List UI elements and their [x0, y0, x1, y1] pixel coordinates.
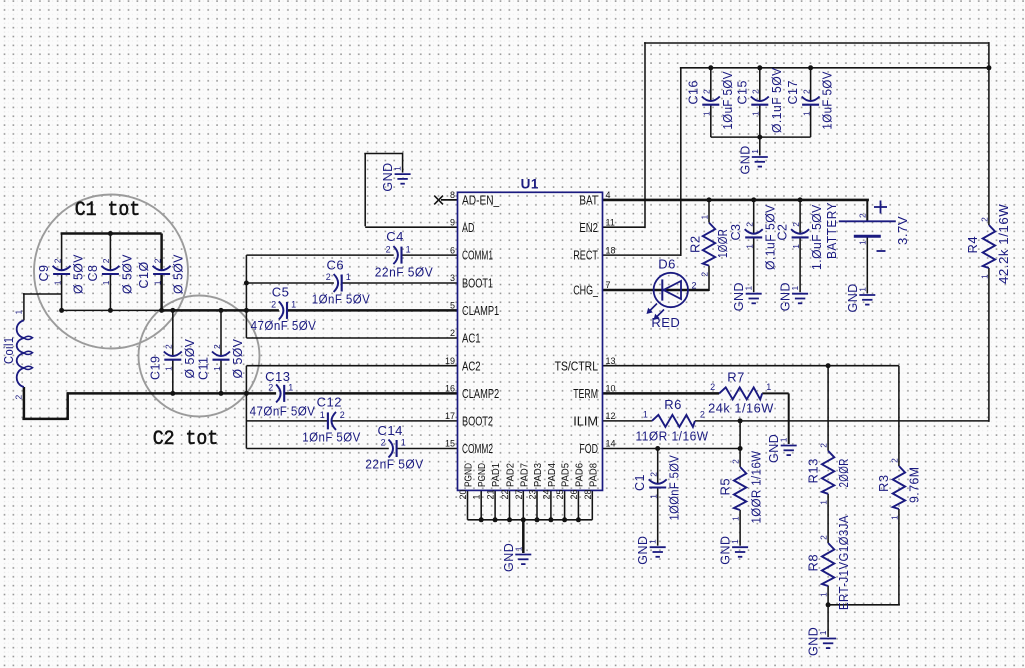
- LED D6: [654, 273, 688, 307]
- svg-text:Ø 5ØV: Ø 5ØV: [231, 338, 245, 378]
- wire R6 node down to FOD row: [739, 421, 741, 449]
- svg-text:Ø 5ØV: Ø 5ØV: [172, 254, 186, 294]
- svg-text:1: 1: [801, 111, 811, 116]
- svg-text:11ØR 1/16W: 11ØR 1/16W: [636, 429, 709, 443]
- wire C16 C15 C17 stubs and bottom rail: [710, 68, 712, 101]
- svg-text:47ØnF 5ØV: 47ØnF 5ØV: [251, 318, 317, 333]
- svg-text:R5: R5: [717, 478, 732, 496]
- capacitor C8: [101, 266, 119, 271]
- wire TERM row thick to R7: [603, 392, 720, 395]
- resistor R13: [822, 451, 834, 494]
- svg-text:COMM1: COMM1: [462, 248, 493, 263]
- svg-text:42.2k 1/16W: 42.2k 1/16W: [997, 204, 1011, 284]
- wire BOOT2 row: [246, 420, 328, 422]
- wire CLAMP1 rail left thin segment: [62, 309, 162, 311]
- svg-text:C17: C17: [786, 80, 800, 104]
- svg-text:AC2: AC2: [462, 358, 481, 373]
- wire FOD row: [603, 448, 741, 450]
- svg-text:25: 25: [555, 489, 565, 499]
- svg-text:RED: RED: [651, 315, 680, 330]
- LED D6 arrows: [649, 304, 657, 312]
- svg-text:1: 1: [819, 592, 829, 597]
- svg-text:PAD1: PAD1: [490, 463, 502, 487]
- svg-text:1ØØR 1/16W: 1ØØR 1/16W: [749, 451, 763, 524]
- svg-text:BAT: BAT: [579, 193, 598, 208]
- capacitor C9: [53, 266, 71, 271]
- svg-text:2: 2: [700, 409, 705, 419]
- capacitor C17: [802, 97, 820, 102]
- capacitor C11: [212, 352, 230, 357]
- resistor R3: [893, 466, 905, 509]
- svg-text:Coil1: Coil1: [2, 337, 16, 365]
- svg-text:1ØØnF 5ØV: 1ØØnF 5ØV: [668, 455, 682, 521]
- svg-text:1: 1: [101, 280, 111, 285]
- svg-text:1: 1: [52, 280, 62, 285]
- capacitor C19: [164, 352, 182, 357]
- svg-text:2: 2: [889, 458, 899, 463]
- svg-text:R3: R3: [876, 474, 891, 492]
- svg-text:D6: D6: [658, 257, 676, 272]
- svg-text:1: 1: [700, 215, 710, 220]
- svg-text:Ø 5ØV: Ø 5ØV: [183, 338, 197, 378]
- svg-text:47ØnF 5ØV: 47ØnF 5ØV: [250, 403, 316, 418]
- svg-text:2: 2: [731, 459, 741, 464]
- capacitor C6: [334, 274, 339, 292]
- svg-text:18: 18: [606, 245, 616, 255]
- wire C19 stubs: [172, 310, 174, 356]
- wire R6 to R4 node: [695, 420, 989, 422]
- svg-text:13: 13: [606, 356, 616, 366]
- svg-text:22nF 5ØV: 22nF 5ØV: [375, 265, 433, 280]
- op-amp U1 IC body: [458, 192, 603, 490]
- svg-text:1ØØR: 1ØØR: [716, 229, 730, 258]
- svg-text:2: 2: [857, 213, 867, 218]
- svg-text:BOOT1: BOOT1: [462, 276, 493, 291]
- annotation circle C1 tot: [34, 195, 188, 349]
- resistor R7: [719, 387, 762, 399]
- svg-text:1: 1: [979, 274, 989, 279]
- svg-text:20: 20: [458, 489, 468, 499]
- svg-text:2: 2: [819, 535, 829, 540]
- svg-text:R8: R8: [805, 554, 820, 572]
- svg-text:1: 1: [643, 409, 648, 419]
- wire coil pin2 step path: [23, 387, 26, 420]
- svg-text:2: 2: [386, 244, 391, 254]
- svg-text:2: 2: [791, 222, 801, 227]
- svg-text:C2: C2: [776, 224, 790, 241]
- svg-text:FOD: FOD: [579, 441, 598, 456]
- ground for U1 PAD bus: [515, 554, 531, 556]
- resistor R4: [983, 225, 995, 268]
- svg-text:2: 2: [710, 382, 715, 392]
- svg-text:2: 2: [801, 89, 811, 94]
- svg-text:PAD4: PAD4: [546, 463, 558, 487]
- wire AC2 row: [246, 365, 457, 367]
- svg-text:1: 1: [744, 286, 754, 291]
- svg-text:C4: C4: [386, 229, 404, 244]
- svg-text:PGND: PGND: [463, 463, 475, 487]
- svg-text:2: 2: [819, 443, 829, 448]
- svg-text:16: 16: [445, 384, 455, 394]
- svg-text:2: 2: [692, 281, 697, 291]
- svg-text:ILIM: ILIM: [573, 414, 598, 429]
- resistor R2: [703, 223, 715, 266]
- wire R2 to BAT rail: [708, 200, 710, 223]
- svg-text:17: 17: [445, 411, 455, 421]
- wire C10 vertical thick: [160, 234, 163, 271]
- svg-text:EN2: EN2: [579, 220, 598, 235]
- svg-text:PAD5: PAD5: [560, 463, 572, 487]
- svg-text:C9: C9: [37, 265, 51, 282]
- svg-text:15: 15: [445, 439, 455, 449]
- svg-text:1ØnF 5ØV: 1ØnF 5ØV: [302, 430, 360, 445]
- svg-text:8: 8: [450, 190, 455, 200]
- svg-text:1: 1: [751, 111, 761, 116]
- capacitor C14: [389, 440, 394, 458]
- svg-text:1: 1: [766, 382, 771, 392]
- svg-text:1: 1: [346, 272, 351, 282]
- capacitor C4: [393, 246, 398, 264]
- svg-text:PAD8: PAD8: [587, 463, 599, 487]
- svg-text:12: 12: [606, 411, 616, 421]
- svg-text:9: 9: [450, 217, 455, 227]
- svg-text:1: 1: [702, 111, 712, 116]
- ground for AD pin: [395, 173, 411, 175]
- svg-text:1: 1: [649, 494, 659, 499]
- svg-text:R4: R4: [965, 236, 980, 254]
- wire EN2 up to top rail: [603, 226, 646, 228]
- svg-text:C8: C8: [86, 265, 100, 282]
- svg-text:1: 1: [857, 287, 867, 292]
- svg-text:Ø.1uF 5ØV: Ø.1uF 5ØV: [770, 67, 784, 133]
- wire COMM2 row: [246, 448, 388, 450]
- svg-text:11: 11: [606, 217, 615, 227]
- wire top rail EN2/RECT net: [644, 42, 989, 44]
- svg-text:2: 2: [450, 328, 455, 338]
- ground for C1: [650, 546, 666, 548]
- wire IC bottom pin stubs and bus: [467, 490, 469, 519]
- svg-text:PAD2: PAD2: [505, 463, 517, 487]
- wire TS/CTRL down to R3: [898, 366, 900, 466]
- svg-text:1: 1: [730, 539, 740, 544]
- svg-text:AD: AD: [462, 220, 474, 235]
- svg-text:1: 1: [164, 366, 174, 371]
- svg-text:R2: R2: [687, 235, 702, 253]
- svg-text:Ø 5ØV: Ø 5ØV: [72, 254, 86, 294]
- svg-text:C15: C15: [735, 80, 749, 104]
- svg-text:1: 1: [406, 244, 411, 254]
- svg-text:2: 2: [14, 395, 24, 400]
- wire R5 stubs: [739, 449, 741, 468]
- svg-text:2: 2: [340, 410, 345, 420]
- svg-text:7: 7: [606, 280, 611, 290]
- svg-text:2: 2: [164, 344, 174, 349]
- wire BAT thick rail: [603, 199, 869, 202]
- svg-text:C12: C12: [317, 395, 342, 410]
- svg-text:CLAMP2: CLAMP2: [462, 386, 499, 401]
- wire CLAMP2 thick rail: [67, 392, 276, 395]
- svg-text:26: 26: [569, 489, 579, 499]
- capacitor C12 (flipped): [332, 412, 337, 430]
- svg-text:AC1: AC1: [462, 331, 481, 346]
- svg-text:3: 3: [450, 273, 455, 283]
- svg-text:2: 2: [152, 258, 162, 263]
- svg-text:C5: C5: [272, 285, 290, 300]
- wire R4 vertical: [988, 68, 990, 225]
- svg-text:1: 1: [152, 280, 162, 285]
- svg-text:PAD3: PAD3: [532, 463, 544, 487]
- svg-text:1: 1: [819, 500, 829, 505]
- svg-text:22: 22: [500, 489, 510, 499]
- svg-text:1ØnF 5ØV: 1ØnF 5ØV: [312, 292, 370, 307]
- capacitor C15: [751, 97, 769, 102]
- svg-text:1: 1: [401, 438, 406, 448]
- svg-text:TERM: TERM: [573, 386, 598, 401]
- svg-text:2: 2: [745, 222, 755, 227]
- wire COMM1 BOOT1 AC1 vertical: [245, 255, 247, 338]
- svg-text:ERT-J1VG1Ø3JA: ERT-J1VG1Ø3JA: [837, 515, 851, 610]
- svg-text:R7: R7: [727, 370, 745, 385]
- wire R13 chain: [827, 366, 829, 451]
- svg-text:14: 14: [606, 439, 616, 449]
- svg-text:1: 1: [648, 539, 658, 544]
- svg-text:1: 1: [393, 166, 403, 171]
- svg-text:5: 5: [450, 301, 455, 311]
- wire RECT up to cap bank rail: [603, 254, 681, 256]
- no-connect X on AD-EN_ pin 8: [441, 199, 458, 201]
- svg-text:1ØuF 5ØV: 1ØuF 5ØV: [821, 71, 835, 130]
- svg-text:6: 6: [450, 245, 455, 255]
- wire C11 stubs: [220, 310, 222, 356]
- svg-text:COMM2: COMM2: [462, 441, 493, 456]
- svg-text:C1Ø: C1Ø: [137, 261, 151, 288]
- svg-text:1: 1: [889, 515, 899, 520]
- capacitor C16: [702, 97, 720, 102]
- capacitor C1: [649, 479, 667, 484]
- resistor R5: [734, 467, 746, 510]
- svg-text:2: 2: [101, 258, 111, 263]
- svg-text:3.7V: 3.7V: [896, 216, 910, 245]
- svg-text:U1: U1: [521, 177, 539, 192]
- svg-text:2: 2: [751, 89, 761, 94]
- wire PAD bus to GND thick: [522, 520, 525, 553]
- svg-text:C14: C14: [378, 423, 403, 438]
- svg-text:1: 1: [513, 546, 523, 551]
- capacitor C2: [791, 229, 809, 234]
- wire C9 bottom stub: [61, 274, 63, 310]
- svg-text:1: 1: [288, 383, 293, 393]
- svg-text:23: 23: [528, 489, 538, 499]
- wire cap bank top rail: [680, 67, 989, 69]
- svg-text:BATTERY: BATTERY: [825, 202, 839, 259]
- svg-text:Ø 5ØV: Ø 5ØV: [120, 254, 134, 294]
- svg-text:2: 2: [649, 472, 659, 477]
- svg-text:1: 1: [790, 286, 800, 291]
- wire coil pin1 to C1 bank: [23, 293, 25, 320]
- thermistor R8: [822, 543, 834, 586]
- svg-text:PAD7: PAD7: [518, 463, 530, 487]
- svg-text:2: 2: [326, 272, 331, 282]
- svg-text:2: 2: [700, 272, 710, 277]
- svg-text:28: 28: [583, 489, 593, 499]
- svg-text:1: 1: [745, 244, 755, 249]
- svg-text:1: 1: [320, 410, 325, 420]
- svg-text:C2 tot: C2 tot: [153, 428, 219, 451]
- ground for R5: [732, 546, 748, 548]
- wire C2 stubs: [799, 200, 801, 234]
- svg-text:2: 2: [52, 258, 62, 263]
- svg-text:1: 1: [472, 494, 482, 499]
- svg-text:2: 2: [212, 344, 222, 349]
- wire CHG_ to LED D6: [603, 289, 710, 292]
- svg-text:RECT: RECT: [573, 248, 598, 263]
- battery BATTERY 3.7V: [839, 220, 896, 222]
- svg-text:1: 1: [857, 240, 867, 245]
- svg-text:24k 1/16W: 24k 1/16W: [708, 401, 774, 415]
- svg-text:C19: C19: [148, 356, 162, 380]
- svg-text:1: 1: [779, 437, 789, 442]
- ground for RECT cap bank: [752, 156, 768, 158]
- svg-text:1: 1: [14, 310, 24, 315]
- svg-text:C3: C3: [729, 224, 743, 241]
- wire R3 bottom to chain junction: [898, 509, 900, 605]
- annotation circle C2 tot: [139, 296, 260, 417]
- svg-text:R6: R6: [664, 397, 682, 412]
- ground for battery: [859, 294, 875, 296]
- svg-text:1: 1: [750, 149, 760, 154]
- svg-text:2: 2: [381, 438, 386, 448]
- svg-text:2: 2: [271, 300, 276, 310]
- svg-text:1ØuF 5ØV: 1ØuF 5ØV: [721, 71, 735, 130]
- wire ILIM row to R6: [603, 420, 652, 422]
- wire chain junction to GND: [827, 605, 829, 637]
- wire AD net to GND: [365, 226, 457, 228]
- svg-text:1: 1: [291, 300, 296, 310]
- svg-text:2: 2: [268, 383, 273, 393]
- ground for R7: [781, 445, 797, 447]
- wire TS/CTRL row: [603, 365, 899, 367]
- svg-text:R13: R13: [805, 458, 820, 483]
- wire AC1 row: [246, 337, 457, 339]
- svg-text:TS/CTRL: TS/CTRL: [555, 358, 598, 373]
- resistor R6: [652, 415, 695, 427]
- svg-text:PGND: PGND: [476, 463, 488, 487]
- svg-text:CLAMP1: CLAMP1: [462, 303, 499, 318]
- svg-text:PAD6: PAD6: [573, 463, 585, 487]
- capacitor C10: [153, 266, 171, 271]
- svg-text:27: 27: [514, 489, 524, 499]
- junction dots: [108, 231, 113, 236]
- svg-text:AD-EN_: AD-EN_: [462, 193, 500, 208]
- svg-text:C1 tot: C1 tot: [75, 199, 141, 222]
- svg-text:C6: C6: [326, 258, 344, 273]
- svg-text:2: 2: [979, 217, 989, 222]
- svg-text:1: 1: [791, 244, 801, 249]
- svg-text:1: 1: [212, 366, 222, 371]
- wire C1 stubs: [657, 449, 659, 484]
- svg-text:2: 2: [702, 89, 712, 94]
- svg-text:21: 21: [486, 489, 496, 499]
- ground for C2: [792, 293, 808, 295]
- svg-text:22nF 5ØV: 22nF 5ØV: [365, 457, 423, 472]
- svg-text:C16: C16: [686, 80, 700, 104]
- wire C1 bank top rail: [61, 233, 63, 271]
- wire R7 to GND: [762, 392, 789, 394]
- svg-text:BOOT2: BOOT2: [462, 414, 493, 429]
- svg-text:9.76M: 9.76M: [908, 467, 922, 504]
- wire BOOT1 row: [246, 282, 334, 284]
- svg-text:4: 4: [606, 190, 611, 200]
- svg-text:C11: C11: [197, 356, 211, 380]
- svg-text:1: 1: [818, 630, 828, 635]
- ground for R8 chain: [820, 638, 836, 640]
- wire COMM1 row: [246, 254, 393, 256]
- inductor Coil1: [17, 320, 24, 338]
- svg-text:10: 10: [606, 384, 616, 394]
- ground for C3: [746, 293, 762, 295]
- svg-text:1.ØuF 5ØV: 1.ØuF 5ØV: [810, 204, 824, 270]
- wire CLAMP1/AC1 thick rail: [162, 309, 279, 312]
- capacitor C3: [745, 229, 763, 234]
- wire battery branch: [866, 200, 868, 221]
- capacitor C5: [279, 301, 284, 319]
- wire C8 stubs: [109, 234, 111, 271]
- svg-text:19: 19: [445, 356, 455, 366]
- svg-text:CHG_: CHG_: [573, 283, 598, 298]
- svg-text:2ØØR: 2ØØR: [837, 458, 851, 487]
- svg-text:C1: C1: [633, 474, 647, 491]
- wire AC2 to COMM2 vertical: [245, 366, 247, 449]
- svg-text:1: 1: [731, 516, 741, 521]
- capacitor C13: [276, 384, 281, 402]
- svg-text:24: 24: [541, 489, 551, 499]
- wire C3 stubs: [753, 200, 755, 234]
